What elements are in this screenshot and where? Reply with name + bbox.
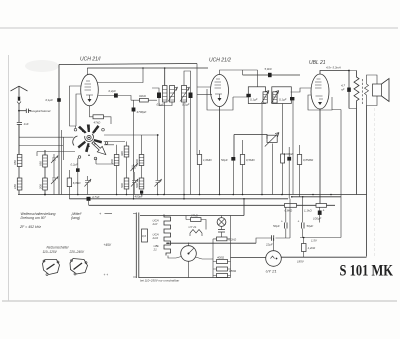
wire heater mid line (166, 242, 256, 244)
trimmer mid3 (155, 176, 162, 188)
svg-text:1,0MΩ: 1,0MΩ (203, 158, 212, 162)
IFT2 wires down (262, 104, 283, 195)
switch wiper white arrow (92, 142, 106, 155)
IFT1 coil B (170, 86, 175, 103)
wire (116, 145, 118, 195)
wire cathode down (219, 107, 221, 195)
antenna connector blob (18, 97, 20, 101)
svg-text:+: + (281, 220, 283, 224)
wire tube box (197, 89, 248, 110)
svg-text:+ +: + + (104, 273, 109, 277)
node (44, 194, 46, 196)
svg-text:1,2kΩ: 1,2kΩ (308, 246, 316, 250)
svg-text:UCH 21/2: UCH 21/2 (209, 58, 231, 64)
tube internals (215, 79, 222, 88)
antenna arrow (17, 102, 21, 105)
capacitor 50uF a (285, 223, 288, 229)
svg-text:0,2µF: 0,2µF (109, 89, 117, 93)
svg-text:+45V: +45V (104, 243, 112, 247)
wire heater bottom to switch (168, 243, 176, 258)
rotary band switch (87, 135, 91, 139)
tube internals (315, 79, 322, 88)
tube UBL21 envelope (311, 74, 329, 109)
fuse box 0,6A (142, 229, 148, 242)
wire UY right (281, 256, 366, 258)
wire cathode down long (319, 109, 321, 204)
power switch circle (181, 246, 197, 262)
svg-text:0,1µF: 0,1µF (182, 103, 190, 107)
svg-text:bei 110–250V nur umschaltbar: bei 110–250V nur umschaltbar (140, 279, 180, 283)
wire to bus (44, 190, 46, 195)
svg-text:21: 21 (153, 248, 158, 252)
coil 500a (124, 178, 129, 189)
wire 4,7 vertical (348, 71, 350, 109)
wire IFT2b right to UBL grid (291, 88, 312, 92)
svg-text:100µF: 100µF (313, 217, 321, 221)
wire (126, 142, 128, 179)
svg-text:200: 200 (110, 159, 114, 165)
node ant junction (18, 110, 20, 112)
resistor 27k (191, 218, 202, 222)
svg-text:4,7nF: 4,7nF (92, 195, 100, 199)
capacitor Ausgleichskond (26, 109, 31, 113)
wire 92k (131, 100, 157, 199)
resistor 0,2k (217, 237, 228, 241)
resistor stack 2 (217, 267, 228, 271)
resistor 47k under tube (93, 115, 104, 119)
capacitor blob IFT2b (290, 97, 294, 100)
svg-text:0,1µF: 0,1µF (157, 103, 165, 107)
svg-text:UY 21: UY 21 (266, 269, 277, 274)
svg-text:Drehung um 90°: Drehung um 90° (21, 216, 47, 220)
svg-text:0,85MΩ: 0,85MΩ (303, 158, 314, 162)
switch spoke right (94, 139, 102, 144)
secondary coil (365, 84, 369, 95)
bus C (89, 204, 335, 206)
svg-text:0,1µF: 0,1µF (250, 97, 258, 101)
svg-text:0,1µF: 0,1µF (46, 98, 54, 102)
svg-text:4700pF: 4700pF (137, 110, 147, 114)
speaker voice coil box (373, 84, 382, 96)
trimmer cap T3 (85, 176, 92, 188)
resistor 0,5M (240, 155, 244, 165)
wire trimmer drops (53, 164, 55, 195)
svg-text:180: 180 (13, 184, 17, 189)
heater chain zigzag (164, 215, 171, 256)
capacitor 4700pF (132, 108, 136, 112)
resistor 0,85M (297, 155, 301, 165)
svg-text:220–240V: 220–240V (69, 250, 85, 254)
wire 1k to bus (199, 150, 201, 195)
wire pot right down (271, 144, 273, 195)
svg-text:21/I: 21/I (152, 222, 158, 226)
capacitor blob IFT2a (246, 94, 250, 97)
volume pot (267, 135, 277, 142)
resistor 1k (197, 155, 201, 165)
tube UY21 (266, 251, 282, 267)
wire stack to UY (231, 257, 266, 259)
resistor stack 1 (217, 260, 228, 264)
scan edge left (8, 55, 10, 301)
wire vertical pair left of switch (62, 130, 64, 195)
svg-text:0,2µF: 0,2µF (71, 163, 79, 167)
svg-text:110–125V: 110–125V (43, 250, 58, 254)
resistor 1,1k (316, 204, 327, 208)
tube box (308, 95, 332, 110)
coil 200 (114, 155, 119, 166)
switch spoke down-left (78, 141, 87, 149)
speaker cone (382, 79, 390, 102)
wire anode right and up (98, 68, 144, 83)
speaker return down (366, 106, 368, 257)
wire cap (98, 96, 131, 101)
wire right of 22uF (289, 199, 291, 238)
svg-text:1000pF: 1000pF (284, 152, 294, 156)
transformer core dashes (361, 79, 363, 104)
svg-text:1,1kΩ: 1,1kΩ (304, 209, 312, 213)
capacitor 0,1uF on left vertical (57, 98, 61, 102)
capacitor 50uF b (302, 223, 305, 229)
capacitor under lamp (218, 230, 225, 233)
tube internals (85, 81, 92, 90)
antenna symbol (11, 86, 28, 96)
wire antenna down (18, 104, 20, 122)
stack wires (213, 262, 231, 276)
IFT2 box a (248, 87, 265, 104)
switch spoke up-right (92, 125, 100, 134)
left area link wires (19, 137, 75, 156)
svg-text:UCH 21/I: UCH 21/I (80, 57, 101, 63)
svg-text:27kΩ: 27kΩ (190, 213, 199, 217)
capacitor 22uF (272, 235, 274, 240)
wire (44, 150, 46, 178)
svg-text:47kΩ: 47kΩ (94, 121, 102, 125)
IFT1 top wires (87, 68, 208, 86)
wire to Ausgleichskond (19, 110, 26, 112)
wire anode top (320, 71, 349, 75)
wire 5,9nF line (243, 74, 300, 76)
wire 1,5V line (300, 110, 341, 238)
svg-text:(lang): (lang) (71, 216, 80, 220)
wire 6,8k (68, 170, 70, 199)
wire left vertical (58, 65, 60, 195)
switch contact rings (74, 128, 77, 131)
svg-text:92kΩ: 92kΩ (139, 94, 147, 98)
wire grid left (197, 64, 211, 156)
bus D (292, 196, 341, 198)
switch spoke down (85, 143, 90, 152)
wires lamp column (213, 216, 231, 278)
wire primary bottom down (356, 109, 358, 195)
fold line faint (374, 108, 376, 256)
capacitor 50uF mid (231, 157, 235, 161)
resistor 92k (140, 98, 149, 102)
resistor 1,2k (302, 244, 307, 252)
capacitor 100uF (318, 211, 322, 215)
IFT1 coil C (182, 86, 187, 103)
switch spoke up (87, 125, 90, 133)
svg-text:UBL 21: UBL 21 (309, 60, 326, 66)
IFT1 bottom wires (152, 88, 172, 195)
svg-text:6,8kΩ: 6,8kΩ (73, 181, 81, 185)
UY21 heater hook (190, 230, 202, 237)
coil 320 (124, 146, 129, 157)
capacitor 1nF (17, 123, 22, 154)
svg-text:Netzumschalter: Netzumschalter (47, 246, 70, 250)
svg-text:ZF = 452 kHz: ZF = 452 kHz (19, 225, 41, 229)
svg-text:nF: nF (341, 88, 345, 92)
switch Netz 1 (43, 260, 60, 275)
heater top wire (140, 199, 244, 216)
wire (18, 167, 20, 179)
capacitor 4,7nF (347, 88, 351, 92)
trimmer cap T2 (51, 174, 58, 186)
switch inner dots (82, 131, 84, 133)
wire 27k (186, 216, 206, 230)
wire switch line (189, 259, 214, 278)
wire to bus (18, 190, 20, 195)
bus A (18, 194, 367, 196)
svg-text:0,2kΩ: 0,2kΩ (229, 238, 237, 242)
coil L2 180 (17, 178, 22, 190)
trimmer mid2 (131, 176, 138, 188)
trimmer mid1 (131, 164, 138, 173)
svg-text:50µF: 50µF (273, 224, 280, 228)
IFT1 core arrow (168, 87, 178, 102)
junction dots on buses (44, 194, 46, 196)
IFT1 coil A (163, 86, 168, 103)
cap 2uF blob (76, 168, 80, 172)
scan edge bottom (2, 300, 397, 302)
svg-text:+: + (323, 209, 325, 213)
wire tube cathode to 47k (90, 106, 112, 125)
svg-text:4,5+ 5,3mA: 4,5+ 5,3mA (326, 66, 341, 70)
IFT2 box b (272, 87, 292, 104)
tube UCH21/2 envelope (211, 75, 229, 107)
dial lamp (217, 218, 226, 227)
svg-text:UY 21: UY 21 (189, 225, 197, 229)
coil L1 950 (17, 155, 22, 167)
svg-text:200: 200 (39, 184, 43, 190)
svg-text:0,6: 0,6 (142, 234, 146, 238)
smudge top-left (25, 60, 59, 72)
resistor 6,8k (67, 178, 71, 187)
IFT1 core arrow 2 (180, 87, 190, 102)
wire plain vertical (292, 100, 294, 194)
bottom power line (139, 277, 231, 279)
wire UY top (256, 238, 290, 251)
coil L4 200 (43, 178, 48, 190)
svg-text:500: 500 (135, 183, 139, 188)
svg-text:Ausgleichskond.: Ausgleichskond. (29, 109, 51, 113)
svg-text:0,5MΩ: 0,5MΩ (246, 158, 255, 162)
svg-text:180Ω: 180Ω (229, 269, 237, 273)
switch Netz 2 (70, 259, 88, 275)
svg-text:185V: 185V (297, 260, 305, 264)
switch spoke up-left (78, 126, 87, 134)
trimmer cap T1 (51, 154, 58, 164)
wire pot left (234, 135, 267, 158)
svg-text:400Ω: 400Ω (217, 255, 225, 259)
coil L3 950 (43, 155, 48, 167)
svg-text:5,9nF: 5,9nF (265, 67, 273, 71)
IFT1b wires (184, 71, 191, 199)
svg-text:500: 500 (120, 183, 124, 188)
svg-text:S 101 MK: S 101 MK (340, 262, 394, 279)
wire tube top to bus (86, 68, 88, 75)
svg-text:950: 950 (13, 160, 17, 165)
capacitor 5,9nF (268, 73, 272, 77)
wire long vertical x158 (157, 135, 159, 195)
speaker wires (367, 75, 378, 106)
svg-text:320: 320 (120, 151, 124, 156)
capacitor 4,7nF on bus B (87, 197, 91, 201)
svg-text:50µF: 50µF (221, 158, 228, 162)
wires switch east (96, 135, 158, 164)
wire anode up right (220, 70, 258, 75)
resistor stack 3 (217, 274, 228, 278)
svg-text:21/2: 21/2 (152, 236, 159, 240)
svg-text:22µF: 22µF (265, 243, 273, 247)
capacitor 0,2uF (114, 93, 118, 97)
svg-text:950: 950 (39, 161, 43, 166)
wire grid left loop (70, 86, 81, 128)
mains double line (136, 213, 139, 279)
output transformer primary zigzag (354, 71, 359, 109)
switch left contact arc (73, 136, 78, 146)
bus B (69, 198, 288, 200)
capacitor 1000pF (287, 157, 291, 161)
coil 200b (139, 155, 144, 166)
capacitor blob IFT1b (189, 93, 193, 99)
svg-text:50µF: 50µF (307, 224, 314, 228)
svg-text:+: + (298, 220, 300, 224)
svg-text:1nF: 1nF (24, 122, 29, 126)
scan edge top (0, 27, 398, 29)
resistor 1,4k (285, 204, 297, 208)
tube UCH21/I envelope (81, 74, 99, 106)
capacitor blob IFT1a (157, 93, 161, 99)
svg-text:0,1µF: 0,1µF (279, 97, 287, 101)
coil 500b (139, 178, 144, 189)
resistor 1,5M (281, 154, 285, 163)
wire cap drop (77, 158, 79, 195)
cap 400pF blob (140, 191, 143, 194)
mains top marks (133, 214, 136, 278)
wire down to IFT2 (257, 70, 259, 87)
top bus line (59, 64, 197, 65)
